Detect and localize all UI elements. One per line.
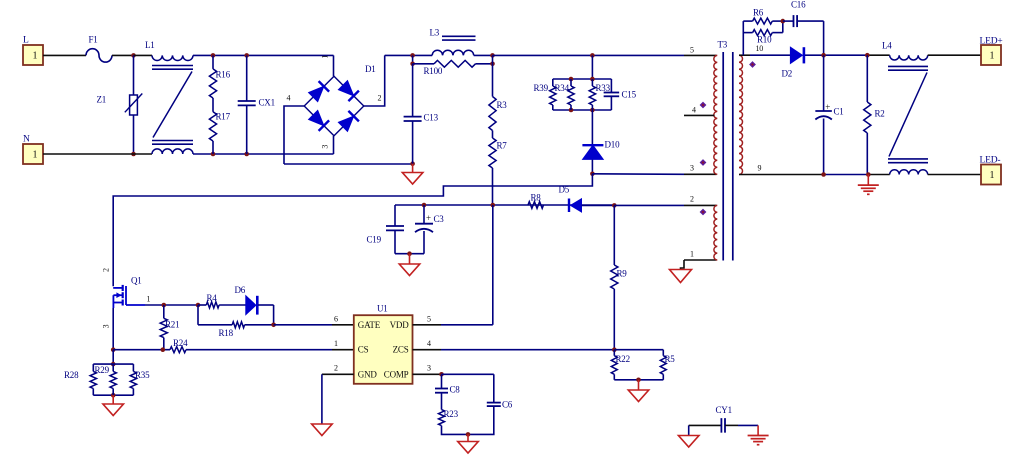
- resistor R4: [198, 293, 246, 308]
- capacitor C3: [415, 205, 444, 254]
- polarity dot pin3: [700, 159, 707, 166]
- wire bridge pin4 to DC return: [284, 106, 304, 164]
- ground C19 C3: [399, 254, 420, 276]
- transformer T3 primary winding: [714, 55, 717, 174]
- resistor R100: [410, 55, 495, 76]
- svg-text:Z1: Z1: [97, 95, 107, 105]
- svg-text:VDD: VDD: [390, 320, 410, 330]
- transformer T3 secondary winding: [739, 55, 743, 174]
- wire F1 to node: [112, 54, 134, 56]
- node R2 bottom: [866, 172, 871, 177]
- svg-text:6: 6: [334, 315, 338, 324]
- wire aux to transformer pin2: [614, 195, 716, 206]
- wire CY1 right riser: [757, 425, 759, 435]
- svg-text:4: 4: [427, 339, 431, 348]
- svg-text:CS: CS: [358, 345, 369, 355]
- svg-text:1: 1: [33, 51, 38, 62]
- node L3 right: [490, 53, 495, 58]
- wire R16-R17: [212, 98, 214, 112]
- svg-text:3: 3: [101, 324, 110, 328]
- transformer T3 label: [718, 40, 728, 50]
- diode D5: [559, 185, 615, 213]
- resistor R28: [64, 364, 97, 395]
- wire CS line: [113, 349, 170, 351]
- wire DC+ to L3: [385, 54, 433, 56]
- node gate loop out: [271, 323, 276, 328]
- node gate R21: [162, 303, 167, 308]
- fuse F1: [86, 35, 112, 63]
- wire transformer pin1: [681, 250, 717, 270]
- svg-text:C19: C19: [367, 235, 382, 245]
- svg-text:C3: C3: [434, 214, 445, 224]
- common-mode choke L4: [882, 41, 928, 175]
- svg-text:R17: R17: [216, 112, 231, 122]
- node Z1 bottom junction: [131, 152, 136, 157]
- wire C19 C3 bottom: [395, 251, 424, 256]
- node clamp top: [590, 53, 595, 58]
- resistor R16: [209, 55, 230, 98]
- wire ZCS to R5: [614, 350, 663, 356]
- svg-text:2: 2: [101, 268, 110, 272]
- wire L4 to LED-: [928, 174, 981, 176]
- svg-text:R8: R8: [531, 193, 542, 203]
- capacitor C1: [815, 55, 843, 174]
- svg-text:L3: L3: [430, 28, 440, 38]
- node C1 top: [821, 53, 826, 58]
- svg-text:1: 1: [690, 250, 694, 259]
- diode D6: [235, 285, 274, 315]
- wire Q1 source: [112, 308, 114, 350]
- wire ZCS pin: [413, 349, 615, 351]
- svg-text:R18: R18: [219, 328, 234, 338]
- resistor R18: [198, 322, 274, 338]
- node ZCS R9 R22: [612, 347, 617, 352]
- svg-text:10: 10: [756, 44, 764, 53]
- port LED+: [980, 37, 1003, 66]
- svg-text:R28: R28: [64, 370, 79, 380]
- transformer T3 pin9 stub: [758, 164, 762, 173]
- svg-text:GND: GND: [358, 370, 378, 380]
- svg-text:D5: D5: [559, 185, 570, 195]
- svg-text:R3: R3: [497, 100, 508, 110]
- node snubber mid: [781, 19, 786, 24]
- svg-text:C8: C8: [450, 385, 461, 395]
- svg-text:R4: R4: [207, 293, 218, 303]
- wire pin10 to D2: [750, 54, 790, 56]
- svg-text:R10: R10: [757, 35, 772, 45]
- capacitor C13: [404, 64, 439, 164]
- port LED-: [980, 156, 1002, 185]
- ground R22 R5: [628, 380, 649, 402]
- svg-text:R7: R7: [497, 141, 508, 151]
- svg-text:2: 2: [690, 195, 694, 204]
- node CX1 top: [244, 53, 249, 58]
- resistor R17: [209, 112, 230, 155]
- wire L1 to bridge bottom rail: [193, 153, 334, 155]
- svg-text:GATE: GATE: [358, 320, 381, 330]
- svg-text:R6: R6: [753, 8, 764, 18]
- svg-text:3: 3: [427, 364, 431, 373]
- svg-text:ZCS: ZCS: [393, 345, 409, 355]
- wire clamp riser: [591, 55, 593, 79]
- svg-text:3: 3: [320, 145, 329, 149]
- resistor R5: [660, 354, 675, 380]
- svg-text:R23: R23: [444, 409, 459, 419]
- svg-text:1: 1: [990, 170, 995, 181]
- svg-text:1: 1: [990, 51, 995, 62]
- svg-text:F1: F1: [89, 35, 98, 45]
- svg-text:1: 1: [33, 150, 38, 161]
- svg-text:4: 4: [692, 106, 696, 115]
- port N: [23, 135, 43, 165]
- polarity dot pin10: [749, 61, 756, 68]
- svg-text:LED+: LED+: [980, 37, 1003, 47]
- wire L1 to bridge top rail: [193, 54, 334, 56]
- svg-text:D2: D2: [782, 69, 793, 79]
- svg-text:R9: R9: [617, 269, 628, 279]
- svg-text:U1: U1: [377, 304, 388, 314]
- varistor Z1: [97, 55, 143, 154]
- wire D2 to LED+ rail: [805, 54, 890, 56]
- transformer T3 core: [723, 52, 733, 261]
- wire GND pin: [322, 374, 354, 424]
- wire COMP pin: [413, 372, 494, 377]
- node drain clamp junction: [590, 172, 595, 177]
- svg-text:LED-: LED-: [980, 156, 1001, 166]
- wire L3 to node: [474, 54, 493, 56]
- wire bridge pin2 to DC+ rail: [364, 55, 385, 106]
- svg-text:R39: R39: [534, 83, 549, 93]
- resistor R39: [534, 79, 557, 110]
- svg-text:D10: D10: [605, 140, 621, 150]
- wire source to sense: [111, 350, 116, 367]
- wire R22 R5 bottom: [614, 378, 663, 383]
- svg-text:CY1: CY1: [716, 405, 732, 415]
- svg-text:R35: R35: [135, 370, 150, 380]
- node L-F1 junction: [131, 53, 136, 58]
- ground sense resistors: [103, 395, 124, 415]
- svg-text:L: L: [23, 36, 29, 46]
- svg-text:5: 5: [427, 315, 431, 324]
- wire DC+ rail to transformer: [493, 46, 717, 56]
- wire clamp to transformer pin3: [592, 164, 716, 175]
- wire gate loop: [198, 305, 274, 325]
- node R21 bottom: [161, 347, 166, 352]
- earth ground CY1: [748, 436, 769, 445]
- node R16 bottom: [211, 152, 216, 157]
- node R16 top: [211, 53, 216, 58]
- node D5 aux junction: [612, 203, 617, 208]
- svg-text:R29: R29: [95, 365, 110, 375]
- polarity dot pin4: [700, 102, 707, 109]
- resistor R6: [743, 8, 783, 25]
- svg-text:1: 1: [334, 339, 338, 348]
- svg-text:+: +: [426, 213, 431, 223]
- svg-text:D1: D1: [365, 64, 376, 74]
- svg-text:1: 1: [147, 295, 151, 304]
- svg-text:R24: R24: [173, 338, 188, 348]
- common-mode choke L1: [145, 40, 193, 154]
- svg-text:2: 2: [334, 364, 338, 373]
- svg-text:R22: R22: [616, 354, 630, 364]
- svg-text:Q1: Q1: [131, 276, 142, 286]
- resistor R9: [611, 205, 628, 349]
- svg-text:C15: C15: [622, 90, 637, 100]
- sense rails: [93, 364, 133, 397]
- resistor R7: [489, 131, 507, 206]
- svg-text:5: 5: [690, 46, 694, 55]
- ground CY1 primary: [678, 436, 699, 448]
- wire VDD pin: [413, 205, 493, 325]
- resistor R35: [130, 364, 150, 395]
- svg-text:L1: L1: [145, 40, 155, 50]
- node R2 top: [865, 53, 870, 58]
- node C13 bottom junction: [410, 161, 415, 166]
- svg-text:C13: C13: [424, 113, 439, 123]
- op-amp U1: [334, 304, 431, 384]
- capacitor C8: [435, 374, 460, 409]
- ground aux winding: [670, 270, 692, 283]
- earth ground secondary: [858, 175, 879, 195]
- capacitor C15: [604, 79, 637, 110]
- wire N to node: [43, 153, 134, 155]
- node gate R4: [196, 303, 201, 308]
- wire node to L1 bottom: [134, 153, 153, 155]
- resistor R33: [589, 79, 610, 110]
- ground U1: [312, 424, 333, 436]
- resistor R34: [555, 79, 575, 110]
- node C3 top: [422, 203, 427, 208]
- wire snubber riser: [742, 21, 744, 55]
- svg-text:R5: R5: [665, 354, 676, 364]
- polarity dot pin2: [700, 209, 707, 216]
- resistor R22: [611, 350, 630, 380]
- clamp rails: [553, 77, 612, 113]
- svg-text:COMP: COMP: [384, 370, 409, 380]
- svg-text:C6: C6: [502, 400, 513, 410]
- bridge rectifier D1: [287, 64, 382, 149]
- svg-text:1: 1: [320, 55, 329, 59]
- transistor Q1: [101, 276, 150, 329]
- wire Q1 gate: [145, 304, 198, 306]
- svg-text:R2: R2: [875, 109, 885, 119]
- node comp ground: [466, 432, 471, 437]
- resistor R24: [170, 338, 354, 353]
- transformer T3 aux winding: [714, 205, 717, 260]
- resistor R29: [95, 364, 117, 395]
- resistor R3: [489, 64, 507, 131]
- svg-text:3: 3: [690, 164, 694, 173]
- wire L to F1: [43, 54, 86, 56]
- svg-text:2: 2: [378, 94, 382, 103]
- diode D2: [782, 47, 804, 78]
- resistor R8: [528, 193, 544, 209]
- wire bridge pin3 to N rail: [333, 136, 335, 154]
- wire CY1 left riser: [688, 425, 690, 435]
- svg-text:R21: R21: [165, 320, 179, 330]
- svg-text:D6: D6: [235, 285, 246, 295]
- wire node to L1: [134, 54, 153, 56]
- wire to GATE pin: [274, 324, 354, 326]
- wire drain net: [101, 174, 592, 286]
- node L3 left: [410, 53, 415, 58]
- svg-text:R100: R100: [424, 66, 443, 76]
- wire secondary bottom rail: [739, 174, 890, 176]
- wire top rail to bridge pin1: [320, 55, 333, 76]
- svg-text:R33: R33: [596, 83, 611, 93]
- capacitor CY1: [689, 405, 758, 433]
- node C1 bottom: [821, 172, 826, 177]
- node VDD riser top: [491, 203, 496, 208]
- ground C13: [402, 164, 423, 184]
- resistor R10: [743, 21, 783, 44]
- resistor R23: [439, 409, 469, 434]
- port L: [23, 36, 43, 66]
- svg-text:4: 4: [287, 94, 291, 103]
- transformer T3 pin10 stub: [739, 44, 763, 55]
- node CS Q1 source: [111, 347, 116, 352]
- svg-text:9: 9: [758, 164, 762, 173]
- resistor R21: [160, 305, 179, 350]
- svg-text:C1: C1: [834, 107, 844, 117]
- capacitor CX1: [238, 55, 275, 154]
- wire L4 to LED+: [928, 54, 981, 56]
- transformer T3 pin4 stub: [684, 106, 715, 116]
- svg-text:T3: T3: [718, 40, 728, 50]
- inductor L3: [430, 28, 476, 56]
- svg-text:C16: C16: [791, 0, 806, 10]
- capacitor C19: [367, 205, 405, 254]
- node CX1 bottom: [244, 152, 249, 157]
- diode D10: [582, 110, 620, 174]
- resistor R2: [864, 55, 885, 174]
- svg-text:R16: R16: [216, 70, 231, 80]
- svg-text:N: N: [23, 135, 30, 145]
- wire VDD rail: [395, 204, 614, 206]
- svg-text:+: +: [825, 102, 830, 112]
- svg-text:CX1: CX1: [259, 98, 275, 108]
- wire DC return to C13 ground: [284, 163, 413, 165]
- capacitor C6: [468, 374, 513, 434]
- capacitor C16: [783, 0, 824, 55]
- svg-text:L4: L4: [882, 41, 892, 51]
- svg-text:R34: R34: [555, 83, 570, 93]
- ground comp network: [458, 434, 479, 453]
